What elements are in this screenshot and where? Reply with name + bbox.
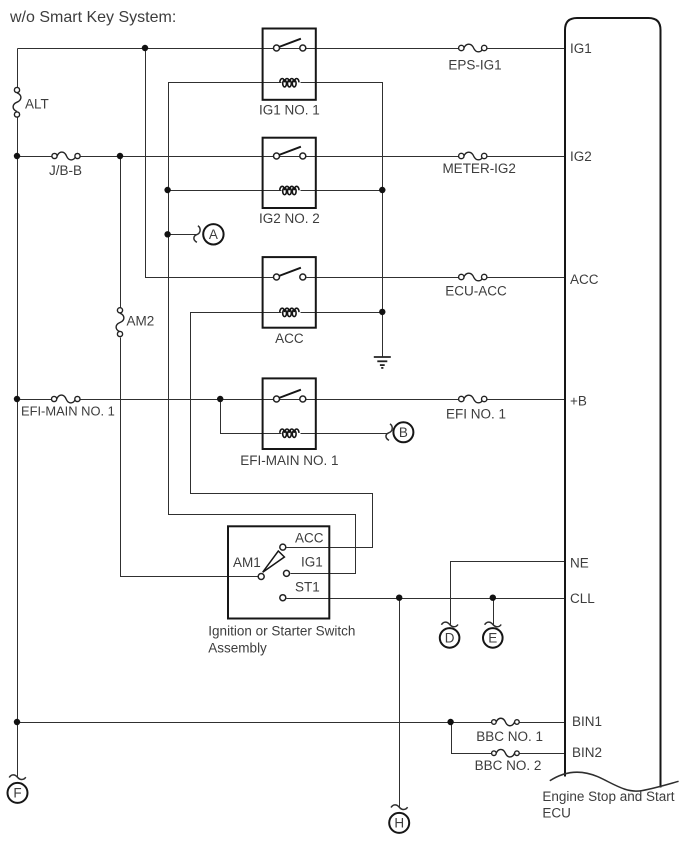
svg-text:ECU: ECU: [542, 805, 571, 820]
wire IG1 relay coil net (coil left down and over to ignition IG1 pin): [169, 83, 356, 574]
fuse EFI-MAIN NO. 1: [52, 395, 81, 403]
connector D: [440, 628, 460, 648]
wire J/B-B rail (left stub): [18, 156, 53, 158]
wire EPS-IG1 fuse to ECU IG1 pin: [488, 48, 566, 50]
svg-text:IG2: IG2: [570, 149, 592, 164]
svg-text:BBC NO. 2: BBC NO. 2: [475, 758, 542, 773]
svg-text:NE: NE: [570, 556, 589, 571]
connector H break symbol: [391, 805, 408, 810]
wire BIN2 branch: [452, 723, 493, 754]
wire coil-right vertical to ground: [301, 83, 383, 358]
wire BBC NO.2 fuse to ECU BIN2 pin: [520, 753, 566, 755]
svg-text:A: A: [209, 227, 218, 242]
wire BBC NO.1 fuse to ECU BIN1 pin: [520, 722, 566, 724]
wire left battery vertical (below ALT fuse to F break): [17, 118, 19, 778]
wire IG2 relay coil left to vertical: [169, 190, 282, 192]
fuse BBC NO. 2: [492, 749, 520, 757]
svg-text:ALT: ALT: [25, 97, 49, 112]
connector D break symbol: [441, 622, 458, 627]
svg-text:ECU-ACC: ECU-ACC: [445, 283, 507, 298]
svg-text:AM1: AM1: [233, 555, 261, 570]
svg-text:Ignition or Starter Switch: Ignition or Starter Switch: [208, 623, 355, 638]
wire EFI-MAIN relay coil right to connector B: [301, 433, 389, 435]
wire EFI-MAIN relay coil feed branch: [221, 400, 282, 434]
svg-text:E: E: [488, 631, 497, 646]
svg-text:IG1 NO. 1: IG1 NO. 1: [259, 103, 320, 118]
svg-text:+B: +B: [570, 394, 587, 409]
svg-text:CLL: CLL: [570, 591, 595, 606]
svg-text:IG1: IG1: [570, 41, 592, 56]
ECU box (Engine Stop and Start ECU): [565, 18, 661, 788]
svg-text:ACC: ACC: [275, 331, 304, 346]
svg-text:BBC NO. 1: BBC NO. 1: [476, 729, 543, 744]
svg-text:AM2: AM2: [127, 314, 155, 329]
svg-text:EFI-MAIN NO. 1: EFI-MAIN NO. 1: [21, 403, 115, 418]
svg-text:EFI-MAIN NO. 1: EFI-MAIN NO. 1: [240, 453, 338, 468]
fuse EPS-IG1: [459, 44, 487, 52]
connector E break symbol: [485, 622, 502, 627]
svg-text:H: H: [394, 816, 404, 831]
svg-text:EPS-IG1: EPS-IG1: [448, 57, 501, 72]
wire AM2 vertical (J/B-B junction down to AM2 fuse): [120, 157, 122, 309]
wire battery rail top (to EPS-IG1 fuse): [18, 48, 459, 50]
ECU torn bottom edge: [550, 772, 679, 791]
wire IG2 coil right: [301, 190, 383, 192]
wire ST1 pin to ECU CLL pin: [287, 598, 566, 600]
relay IG2 NO. 2: [263, 138, 316, 208]
wire ACC feed vertical from battery rail to ACC relay switch: [146, 49, 275, 278]
svg-text:METER-IG2: METER-IG2: [442, 161, 516, 176]
connector F: [8, 783, 28, 803]
wire connector H vertical: [399, 599, 401, 808]
wire J/B-B fuse to METER-IG2 fuse (through IG2 relay switch): [81, 156, 459, 158]
wire ACC relay switch output to ECU-ACC fuse: [307, 277, 459, 279]
connector H: [389, 813, 409, 833]
relay ACC: [263, 257, 316, 328]
wire ACC coil right: [301, 312, 383, 314]
wire ECU NE pin to connector D: [451, 562, 566, 625]
fuse ECU-ACC: [459, 273, 487, 281]
svg-text:ACC: ACC: [570, 272, 599, 287]
svg-text:BIN1: BIN1: [572, 714, 602, 729]
wire EFI-MAIN NO.1 fuse to EFI NO.1 fuse (through relay switch): [81, 399, 459, 401]
wire connector E vertical: [493, 599, 495, 625]
wire node A stub: [169, 234, 197, 236]
svg-text:w/o Smart Key System:: w/o Smart Key System:: [9, 9, 176, 26]
wire AM2 fuse down to AM1 pin of ignition switch: [121, 338, 259, 577]
wire METER-IG2 fuse to ECU IG2 pin: [488, 156, 566, 158]
fuse EFI NO. 1: [459, 395, 487, 403]
svg-text:Engine Stop and Start: Engine Stop and Start: [542, 789, 674, 804]
connector E: [483, 628, 503, 648]
svg-text:J/B-B: J/B-B: [49, 163, 82, 178]
fuse METER-IG2: [459, 152, 487, 160]
wire EFI NO.1 fuse to ECU +B pin: [488, 399, 566, 401]
wire left battery vertical (upper part): [17, 49, 19, 88]
connector A: [203, 224, 223, 244]
connector B break symbol: [386, 424, 392, 441]
svg-text:ST1: ST1: [295, 580, 320, 595]
fuse BBC NO. 1: [492, 718, 520, 726]
relay EFI-MAIN NO. 1: [263, 378, 316, 449]
svg-text:B: B: [399, 425, 408, 440]
wire +B rail left stub: [18, 399, 53, 401]
fuse AM2: [116, 308, 124, 337]
ground (below ACC relay coil): [374, 357, 391, 368]
wire BIN1 rail: [18, 722, 493, 724]
svg-text:IG2 NO. 2: IG2 NO. 2: [259, 211, 320, 226]
svg-text:Assembly: Assembly: [208, 641, 267, 656]
wire ECU-ACC fuse to ECU ACC pin: [488, 277, 566, 279]
connector A break symbol: [194, 226, 200, 243]
connector B: [393, 422, 413, 442]
relay IG1 NO. 1: [263, 29, 316, 100]
fuse ALT: [13, 87, 21, 117]
svg-text:F: F: [13, 786, 21, 801]
connector F break symbol: [9, 775, 26, 780]
svg-text:BIN2: BIN2: [572, 745, 602, 760]
fuse J/B-B: [52, 152, 80, 160]
svg-text:IG1: IG1: [301, 554, 323, 569]
svg-text:EFI NO. 1: EFI NO. 1: [446, 406, 506, 421]
svg-text:ACC: ACC: [295, 530, 324, 545]
svg-text:D: D: [445, 631, 455, 646]
wire ACC relay coil left net (down and over to ignition ACC pin): [191, 313, 373, 548]
ignition or starter switch assembly: [228, 526, 329, 618]
